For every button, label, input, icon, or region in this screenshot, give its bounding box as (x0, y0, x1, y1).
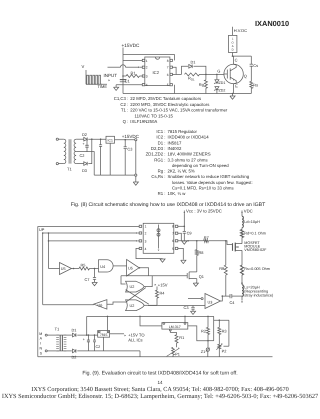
svg-text:H.V.DC: H.V.DC (234, 28, 247, 33)
svg-text:INPUT: INPUT (104, 73, 118, 78)
IC2 pin stubs right (170, 59, 173, 61)
svg-text:T1 :: T1 : (121, 108, 128, 113)
svg-text:G: G (217, 69, 220, 74)
svg-text:M: M (39, 332, 42, 336)
VDC rail wire (241, 213, 243, 216)
wire pin4 to ground (116, 84, 142, 86)
svg-text:ZD1,ZD2 :: ZD1,ZD2 : (146, 152, 166, 157)
fig9 border left and top with UP label (38, 227, 139, 357)
svg-text:7815 Regulator: 7815 Regulator (168, 129, 198, 134)
svg-text:P1: P1 (175, 352, 180, 357)
resistor Rd (241, 228, 243, 230)
svg-text:8: 8 (167, 59, 169, 63)
svg-text:4: 4 (145, 247, 147, 251)
svg-text:R9: R9 (219, 266, 224, 271)
resistor RG1 (185, 73, 200, 76)
svg-text:IC2: IC2 (153, 70, 160, 75)
svg-text:IXAN0010: IXAN0010 (255, 19, 289, 28)
svg-text:IN5817: IN5817 (168, 140, 182, 145)
zener ZD1 (216, 74, 218, 79)
resistor R1 fig9 (169, 331, 171, 333)
wire R7 to MOSFET gate (208, 241, 232, 245)
IC1 ground pin (109, 143, 111, 175)
regulator IC1 box (106, 136, 115, 143)
potentiometer P2 (218, 344, 221, 349)
wire to pin 2 (43, 232, 138, 234)
wire rail to pin 1 (123, 59, 142, 61)
svg-text:8: 8 (172, 225, 174, 229)
svg-text:Z1: Z1 (201, 349, 206, 354)
driver IC pin stubs right (175, 225, 178, 227)
wire riser to LM317 (140, 316, 162, 326)
wire D3 riser to rail (88, 139, 92, 163)
svg-text:2: 2 (145, 231, 147, 235)
filter capacitor C2 fig9 (94, 335, 96, 340)
gate U4 (99, 260, 114, 272)
capacitor C1 on rail (120, 79, 126, 81)
svg-text:U6: U6 (98, 303, 103, 307)
svg-text:losses. Value depends upon few: losses. Value depends upon few. Suggest: (172, 180, 253, 185)
svg-text:2200 MFD, 35VDC Electrolytic c: 2200 MFD, 35VDC Electrolytic capacitors (130, 102, 209, 107)
svg-text:U3: U3 (208, 300, 213, 304)
wire pin5 to ground (178, 248, 184, 259)
wire feedback up from U6 (42, 233, 44, 305)
transformer T1 secondary (74, 139, 76, 163)
comparator U3 (205, 294, 221, 309)
inductor Ld (242, 216, 243, 227)
svg-text:22 MFD, 25VDC Tantalum capacit: 22 MFD, 25VDC Tantalum capacitors (130, 96, 201, 101)
svg-text:Q1: Q1 (199, 274, 204, 279)
fig9 bottom rail (38, 356, 273, 358)
svg-text:O: O (232, 41, 234, 44)
svg-text:UP: UP (39, 227, 45, 232)
svg-text:R1 :: R1 : (158, 191, 166, 196)
svg-text:110VAC TO 15-0-15: 110VAC TO 15-0-15 (135, 113, 174, 118)
svg-text:ZD1: ZD1 (219, 81, 226, 85)
svg-text:ALL ICs: ALL ICs (128, 337, 142, 342)
buffer U5 (60, 263, 72, 275)
svg-text:C3: C3 (127, 147, 132, 152)
ground at emitter (232, 94, 234, 97)
svg-text:7: 7 (167, 66, 169, 70)
resistor R9 (225, 241, 227, 265)
svg-text:R5: R5 (81, 263, 86, 268)
svg-text:+: + (83, 142, 85, 146)
potentiometer P1 (172, 347, 175, 355)
wire INPUT to pin 2 with hop (108, 66, 121, 68)
wire pin4 ground route (136, 248, 163, 258)
7815 ground to bottom (103, 337, 105, 351)
svg-text:IXLF19N250A: IXLF19N250A (130, 119, 157, 124)
wire latch to U3 lower input (148, 305, 205, 307)
wire jog R2 to R3 branch (214, 320, 229, 341)
svg-text:U5: U5 (128, 267, 133, 271)
svg-text:3: 3 (145, 239, 147, 243)
latch gate U2 upper (126, 281, 145, 292)
svg-text:2: 2 (146, 66, 148, 70)
resistor R2 fig9 (207, 316, 209, 327)
svg-text:14: 14 (157, 380, 163, 385)
svg-text:D2: D2 (82, 132, 87, 137)
wire U6 input (107, 302, 126, 304)
ground near C1 (115, 85, 117, 88)
svg-text:7815: 7815 (100, 333, 108, 337)
current return arrow (241, 296, 243, 300)
svg-text:1: 1 (146, 59, 148, 63)
fig8 supply ground rail (94, 174, 135, 176)
svg-text:10K, ¼ w: 10K, ¼ w (168, 191, 187, 196)
svg-text:U2: U2 (130, 285, 135, 289)
svg-text:Fig. (8) Circuit schematic sho: Fig. (8) Circuit schematic showing how t… (71, 202, 266, 208)
svg-text:N: N (39, 347, 42, 351)
vertical wire output terminals (135, 141, 137, 174)
svg-text:C2: C2 (80, 153, 85, 158)
transformer T1 fig9 (56, 334, 59, 336)
IGBT Q symbol (224, 64, 243, 83)
svg-text:VDC: VDC (244, 208, 253, 213)
svg-text:+15VDC: +15VDC (122, 134, 140, 139)
diode D2 top (76, 138, 83, 140)
transformer T1 primary (64, 139, 66, 163)
svg-text:1: 1 (145, 225, 147, 229)
svg-text:C2: C2 (96, 345, 101, 349)
wire pins 7-6 bracket (172, 67, 176, 74)
svg-text:Q :: Q : (123, 119, 129, 124)
IC2 pin stubs left (142, 59, 145, 61)
svg-text:+15V: +15V (158, 282, 168, 287)
svg-text:C7: C7 (85, 277, 90, 282)
svg-text:VMO580-02F: VMO580-02F (244, 248, 267, 252)
svg-text:R7: R7 (204, 235, 209, 240)
mains terminals fig9 (45, 334, 47, 336)
svg-text:ZD2: ZD2 (219, 89, 226, 93)
resistor Rg gate-emitter (205, 74, 207, 79)
svg-text:D: D (232, 49, 234, 52)
regulator LM-317 box (162, 323, 188, 330)
svg-text:5: 5 (167, 83, 169, 87)
svg-text:C1,C3 :: C1,C3 : (114, 96, 129, 101)
svg-text:Rd=0.1 Ohm: Rd=0.1 Ohm (244, 232, 266, 236)
latch gate U2 lower (126, 300, 145, 311)
svg-text:Snubber network to reduce IGBT: Snubber network to reduce IGBT switching (168, 174, 250, 179)
wire pin1 from border (138, 225, 140, 227)
wire bracket to D1/RG1 loop (176, 73, 181, 75)
wire R4 to latch output (151, 304, 158, 306)
mains input terminals (56, 138, 58, 140)
svg-text:RG1 :: RG1 : (154, 157, 165, 162)
resistor R5 (72, 268, 80, 270)
emitter wire (233, 84, 235, 94)
svg-text:A: A (232, 45, 234, 48)
svg-text:D2: D2 (72, 354, 77, 359)
gate wire to IGBT (206, 73, 224, 75)
+15V TO ALL ICs label (110, 333, 124, 335)
svg-text:E: E (235, 83, 238, 88)
svg-text:Vcc : 3V to 25VDC: Vcc : 3V to 25VDC (186, 208, 222, 213)
svg-text:3: 3 (146, 74, 148, 78)
svg-text:depending on Turn-ON speed: depending on Turn-ON speed (172, 163, 229, 168)
capacitor C4 (229, 294, 231, 298)
bottom rail fig8 (123, 93, 251, 95)
resistor Rs power (241, 254, 243, 265)
svg-text:R3: R3 (222, 329, 227, 334)
center tap wire to ground rail (76, 152, 94, 176)
MOSFET module symbol (232, 243, 234, 251)
diode D3 bottom (76, 163, 83, 165)
svg-text:C9: C9 (187, 231, 192, 236)
svg-text:TIME: TIME (98, 84, 108, 89)
driver IC2 body (145, 57, 170, 86)
svg-text:Fig. (9). Evaluation circuit: Fig. (9). Evaluation circuit to test IXD… (82, 371, 237, 377)
svg-text:D2,D3 :: D2,D3 : (151, 146, 166, 151)
svg-text:6: 6 (167, 73, 169, 77)
wire pins 7-6 bracket fig9 (178, 233, 182, 241)
svg-text:18V, 400MW ZENERS: 18V, 400MW ZENERS (168, 152, 211, 157)
wire U6 output to left feedback (43, 304, 94, 306)
svg-text:D1: D1 (191, 59, 196, 64)
latch cross feedback wires (126, 288, 146, 303)
wire Z1 to bottom rail (207, 351, 209, 357)
svg-text:4: 4 (146, 83, 148, 87)
svg-text:T1: T1 (67, 167, 72, 172)
svg-text:2K2, ¼ W, 5%: 2K2, ¼ W, 5% (168, 169, 195, 174)
svg-text:IXYS Semiconductor GmbH; Ediso: IXYS Semiconductor GmbH; Edisonstr. 15; … (2, 393, 318, 400)
wire Vcc to pin 8 (178, 225, 185, 227)
svg-text:I: I (40, 342, 41, 346)
capacitor C7 with ground (94, 269, 96, 278)
svg-text:V: V (82, 64, 85, 69)
driver IC pin stubs left (139, 225, 142, 227)
svg-text:C2 :: C2 : (120, 102, 128, 107)
svg-text:G1: G1 (191, 77, 195, 81)
svg-text:U4: U4 (100, 264, 106, 269)
svg-text:IN4002: IN4002 (168, 146, 182, 151)
inductor Ls stray (241, 275, 243, 285)
svg-text:3.3 ohms to 27 ohms: 3.3 ohms to 27 ohms (168, 157, 208, 162)
svg-text:C: C (235, 58, 238, 63)
wire to pin 3 (49, 233, 138, 241)
driver IC internal symbol (158, 225, 160, 239)
svg-text:+: + (83, 338, 85, 342)
svg-text:Rg :: Rg : (158, 169, 166, 174)
svg-text:6: 6 (172, 239, 174, 243)
svg-text:Ld=10µH: Ld=10µH (244, 220, 260, 224)
svg-text:Rs=0.005 Ohm: Rs=0.005 Ohm (244, 267, 270, 271)
capacitor C2 electrolytic (86, 139, 88, 145)
load box (229, 35, 237, 52)
wire rectifier to rail above (86, 316, 88, 335)
svg-text:Cs,Rs :: Cs,Rs : (151, 174, 165, 179)
svg-text:R8: R8 (199, 250, 204, 255)
LM317 adj pin (169, 329, 171, 331)
wire collector to H.V.DC load (232, 53, 234, 57)
ground symbol fig8 supply (135, 176, 137, 182)
diode D1 fig9 (66, 334, 71, 336)
svg-text:U5: U5 (61, 267, 66, 271)
wire VCC top to pin 8 (123, 55, 175, 61)
svg-text:U2: U2 (130, 304, 135, 308)
input pulse train (86, 75, 102, 84)
ground at Q1 source (193, 283, 198, 286)
+15V label with R4 (155, 284, 157, 286)
capacitor C9 with ground (183, 226, 185, 231)
svg-text:IC1: IC1 (108, 139, 113, 143)
svg-text:220 VAC to 15-0-15 VAC, 15VA c: 220 VAC to 15-0-15 VAC, 15VA control tra… (130, 108, 228, 113)
snubber wire top (233, 55, 252, 57)
svg-text:IXYS Corporation; 3540 Bassett: IXYS Corporation; 3540 Bassett Street; S… (31, 386, 288, 393)
transformer T1 core (68, 139, 70, 163)
capacitor at regulator input (100, 139, 102, 145)
diode D2 fig9 (66, 350, 71, 352)
capacitor C3 (124, 140, 126, 147)
svg-text:LM-317: LM-317 (169, 325, 181, 329)
svg-text:Cs=0.1 MFD, Rs=10 to 33 ohms: Cs=0.1 MFD, Rs=10 to 33 ohms (172, 186, 234, 191)
transistor Q1 (189, 271, 197, 273)
wire latch to long gate wire (121, 276, 126, 284)
regulator 7815 box (98, 331, 110, 338)
svg-text:Cs: Cs (253, 63, 258, 68)
svg-text:R4: R4 (160, 291, 166, 296)
svg-text:7: 7 (172, 232, 174, 236)
driver IC fig9 body (143, 223, 174, 253)
wire pin6 to R7 (181, 240, 203, 242)
time axis (86, 83, 107, 85)
label VDC supply (241, 212, 243, 213)
svg-text:D3: D3 (82, 168, 87, 173)
+15VDC output wire (115, 139, 135, 141)
wire U1 output to Q1 gate (139, 268, 148, 276)
zener ZD2 (215, 87, 219, 90)
resistor Rs (250, 81, 253, 88)
diode D1 parallel branch (182, 66, 189, 74)
resistor R7 (204, 239, 209, 242)
resistor R1 (123, 75, 126, 77)
svg-text:Rs: Rs (253, 82, 258, 87)
capacitor C3 fig9 to ground (192, 306, 194, 308)
filter capacitor C1 fig9 (87, 335, 89, 340)
svg-text:R1: R1 (131, 70, 137, 75)
+15VDC vertical rail (122, 48, 124, 94)
resistor R3 fig9 (218, 320, 220, 327)
wire down to U5 input (48, 241, 50, 269)
supply rail fig9 (87, 315, 214, 317)
svg-text:T1: T1 (55, 327, 60, 332)
wire U3 plus input (188, 298, 201, 300)
svg-text:C3: C3 (184, 305, 189, 310)
buffer U1 (127, 260, 140, 277)
resistor R4 (156, 287, 158, 291)
svg-text:R2: R2 (201, 329, 206, 334)
svg-text:C1: C1 (125, 79, 131, 84)
wire P2 wiper return (228, 320, 230, 346)
inverter U6 feedback (94, 300, 107, 309)
svg-text:IC2 :: IC2 : (156, 135, 165, 140)
wire U4 to U1 (113, 265, 126, 267)
svg-text:stray inductance): stray inductance) (244, 293, 274, 297)
svg-text:D1 :: D1 : (158, 140, 166, 145)
resistor R8 (196, 241, 198, 250)
collector wire (233, 56, 235, 64)
capacitor Cs (250, 56, 252, 64)
wire 7815 to supply rail (107, 316, 109, 330)
wire bottom to pin 5 (174, 85, 176, 94)
wire U3 output through C4 (221, 296, 231, 301)
svg-text:P2: P2 (222, 349, 227, 354)
svg-text:D1: D1 (72, 328, 77, 333)
svg-text:Rg: Rg (199, 82, 204, 87)
wire LM317 out (188, 326, 208, 341)
svg-text:IC1 :: IC1 : (156, 129, 165, 134)
svg-text:Q: Q (244, 74, 247, 79)
svg-text:R1: R1 (179, 335, 184, 340)
long wire to Q1 gate (121, 275, 187, 277)
svg-text:5: 5 (172, 247, 174, 251)
svg-text:IXDD408 or IXDD414: IXDD408 or IXDD414 (168, 135, 210, 140)
svg-text:+15VDC: +15VDC (122, 43, 140, 48)
label Vcc supply (183, 212, 185, 213)
svg-text:C4: C4 (230, 300, 236, 305)
